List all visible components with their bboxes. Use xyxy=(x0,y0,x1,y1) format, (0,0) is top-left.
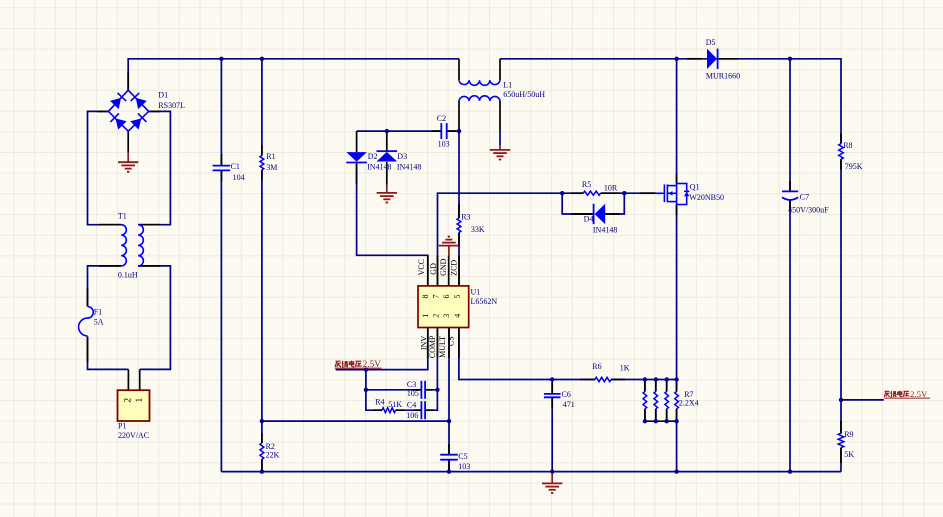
pin T1 bottom left xyxy=(99,265,121,267)
pin C2 right xyxy=(447,130,456,132)
svg-text:IN4148: IN4148 xyxy=(367,162,391,171)
junction at (437.4,389.8) xyxy=(435,388,439,392)
svg-text:C4: C4 xyxy=(407,400,416,409)
diode D5 xyxy=(707,49,717,69)
svg-text:3: 3 xyxy=(442,314,451,318)
svg-text:C5: C5 xyxy=(458,452,467,461)
bridge rectifier D1 diode element xyxy=(130,119,141,130)
svg-text:C7: C7 xyxy=(800,193,809,202)
svg-text:U1: U1 xyxy=(471,287,481,296)
junction at (459,131.1) xyxy=(457,129,461,133)
inductor L1 primary winding xyxy=(459,80,500,85)
svg-text:C2: C2 xyxy=(437,114,446,123)
junction at (841,399.9) xyxy=(839,398,843,402)
resistor R7 element 2 xyxy=(654,391,658,408)
svg-text:COMP: COMP xyxy=(428,335,437,358)
wire Q1 source to R7 bank xyxy=(676,205,678,380)
pin R9 top xyxy=(840,421,842,434)
junction at (655.8,421.2) xyxy=(654,419,658,423)
svg-text:104: 104 xyxy=(233,173,245,182)
wire divider to MULT pin xyxy=(262,420,449,422)
svg-text:1K: 1K xyxy=(620,364,630,373)
pin R1 top xyxy=(261,145,263,156)
pin P1 pin2 xyxy=(127,369,129,390)
svg-text:CS: CS xyxy=(446,336,455,346)
svg-text:1: 1 xyxy=(421,314,430,318)
wire R4 C4 lower branch left xyxy=(366,390,382,410)
pin Q1 source xyxy=(676,205,678,216)
svg-text:R7: R7 xyxy=(684,390,693,399)
wire feedback branch down xyxy=(365,370,367,390)
pin T1 top right xyxy=(138,224,160,226)
diode D3 xyxy=(377,152,398,162)
bridge rectifier D1 diamond xyxy=(108,90,148,131)
junction at (655.8,379.5) xyxy=(654,377,658,381)
wire top rail from bridge to L1 xyxy=(128,59,459,90)
wire R7 leg 4 xyxy=(676,380,678,392)
inductor L1 secondary winding xyxy=(459,96,500,101)
svg-text:C1: C1 xyxy=(231,162,240,171)
pin R5 right xyxy=(601,192,620,194)
pin U1 COMP xyxy=(436,328,438,359)
wire right column below R9 to bottom rail xyxy=(840,448,842,472)
wire R7 bottom rail xyxy=(645,420,677,422)
wire bridge left vertex to T1 left top xyxy=(88,111,122,224)
svg-text:R5: R5 xyxy=(582,180,591,189)
resistor R4 xyxy=(382,408,396,413)
junction at (221.4,58.8) xyxy=(219,57,223,61)
svg-text:R8: R8 xyxy=(843,141,852,150)
pin C6 bottom xyxy=(551,397,553,408)
pin D3 cathode xyxy=(386,131,388,151)
pin R7 stubs xyxy=(644,382,646,392)
resistor R5 xyxy=(583,191,600,195)
wire C6 lower to rail xyxy=(551,397,553,471)
pin D5 cathode xyxy=(719,58,738,60)
wire T1 left bottom to fuse F1 xyxy=(88,266,122,307)
resistor R7 element 3 xyxy=(665,391,669,408)
svg-text:33K: 33K xyxy=(471,225,485,234)
svg-text:R9: R9 xyxy=(844,430,853,439)
wire feedback tap to net label 2 xyxy=(841,399,884,401)
bridge rectifier D1 diode element xyxy=(116,119,127,130)
fuse F1 xyxy=(79,307,94,336)
pin R9 bottom xyxy=(840,448,842,463)
junction at (449,421.1) xyxy=(447,419,451,423)
wire R5 right to Q1 gate xyxy=(601,192,656,194)
op-amp controller U1 body xyxy=(418,286,469,328)
pin Q1 drain xyxy=(676,174,678,184)
wire C7 upper xyxy=(789,59,791,192)
svg-text:VCC: VCC xyxy=(417,259,426,275)
resistor R8 xyxy=(839,144,844,160)
junction at (790,471.6) xyxy=(788,469,792,473)
svg-text:22K: 22K xyxy=(266,451,280,460)
wire bridge right vertex to T1 right top xyxy=(138,111,170,224)
junction at (676.6,58.8) xyxy=(674,57,678,61)
pin R8 top xyxy=(840,134,842,144)
pin R7 stubs xyxy=(676,382,678,392)
ground below D3 xyxy=(386,185,388,193)
wire F1 to P1 pin 2 xyxy=(88,337,129,370)
pin R4 stubs xyxy=(374,409,383,411)
svg-text:GND: GND xyxy=(439,258,448,276)
capacitor C1 xyxy=(213,165,231,167)
svg-text:450V/300uF: 450V/300uF xyxy=(788,205,829,214)
resistor R7 element 1 xyxy=(643,391,647,408)
wire C1 branch upper xyxy=(220,59,222,166)
wire R7 leg xyxy=(666,380,668,392)
svg-text:D1: D1 xyxy=(158,91,168,100)
wire Q1 drain to top rail xyxy=(676,59,678,184)
svg-text:D5: D5 xyxy=(706,38,716,47)
wire D2 D3 to C2 xyxy=(357,130,442,132)
wire D4 left branch xyxy=(562,193,593,214)
pin F1 bottom xyxy=(87,337,89,363)
svg-text:795K: 795K xyxy=(845,162,863,171)
wire C3 left xyxy=(366,389,422,391)
pin R2 bottom xyxy=(261,459,263,470)
svg-text:106: 106 xyxy=(406,411,418,420)
wire R2 bottom to rail xyxy=(261,459,263,471)
svg-text:220V/AC: 220V/AC xyxy=(118,431,149,440)
junction at (365.9,369.6) xyxy=(364,367,368,371)
svg-text:MUR1660: MUR1660 xyxy=(706,72,740,81)
wire T1 right bottom to P1 pin 1 xyxy=(138,266,170,370)
svg-text:1: 1 xyxy=(135,397,145,402)
resistor R7 element 4 xyxy=(675,391,679,408)
wire C6 node to R6 xyxy=(552,379,595,381)
svg-text:R1: R1 xyxy=(266,152,275,161)
net label feedback 2.5V right xyxy=(884,389,930,399)
pin L1 secondary ends xyxy=(458,101,460,131)
junction at (261.9,471.6) xyxy=(260,469,264,473)
wire CS pin to C6 node xyxy=(459,328,552,380)
pin T1 top left xyxy=(99,224,121,226)
pin C3 stubs xyxy=(414,389,422,391)
pin bridge bottom xyxy=(127,131,129,152)
wire ZCD column upper to R3 xyxy=(458,131,460,218)
svg-text:D4: D4 xyxy=(584,215,594,224)
wire GD pin to R5 xyxy=(438,193,563,286)
junction at (261.9,421.1) xyxy=(260,419,264,423)
wire D2 cathode to VCC pin xyxy=(357,164,428,286)
junction at (365.9,389.8) xyxy=(364,388,368,392)
wire C5 lower xyxy=(448,460,450,472)
wire R1 bottom to R2 top xyxy=(261,170,263,443)
pin T1 bottom right xyxy=(138,265,160,267)
wire C6 upper xyxy=(551,380,553,394)
svg-text:R4: R4 xyxy=(375,398,384,407)
svg-text:IN4148: IN4148 xyxy=(397,162,421,171)
bridge rectifier D1 diode element xyxy=(110,98,121,109)
pin R8 bottom xyxy=(840,159,842,169)
wire R7 leg xyxy=(644,380,646,392)
pin C7 top xyxy=(789,181,791,191)
wire R3 to ZCD pin xyxy=(458,233,460,286)
svg-text:2: 2 xyxy=(123,398,133,403)
wire C4 right up to COMP node xyxy=(425,390,437,410)
svg-text:5A: 5A xyxy=(94,318,104,327)
pin R7 stubs xyxy=(655,382,657,392)
ground below bridge xyxy=(127,153,129,163)
pin U1 MULT xyxy=(448,328,450,359)
svg-text:IN4148: IN4148 xyxy=(593,226,617,235)
wire L1 secondary right to ground xyxy=(499,131,501,146)
junction at (624.3,193.2) xyxy=(622,191,626,195)
junction at (676.6,471.6) xyxy=(674,469,678,473)
pin R3 bottom xyxy=(458,233,460,248)
ground below bottom rail at C6 column xyxy=(551,472,553,484)
junction at (552.2,471.6) xyxy=(550,469,554,473)
capacitor C7 polarized xyxy=(782,190,798,192)
svg-text:7: 7 xyxy=(432,295,441,299)
svg-text:C6: C6 xyxy=(562,390,571,399)
junction at (676.6,421.2) xyxy=(674,419,678,423)
svg-text:6: 6 xyxy=(442,295,451,299)
pin D2 cathode xyxy=(356,164,358,185)
pin C5 bottom xyxy=(448,460,450,470)
pin R5 left xyxy=(571,192,583,194)
connector P1 body xyxy=(118,390,150,421)
svg-text:R2: R2 xyxy=(266,442,275,451)
pin bridge right xyxy=(149,110,161,112)
wire C2 to ZCD column xyxy=(447,130,459,132)
resistor R3 xyxy=(457,218,461,233)
svg-text:R6: R6 xyxy=(592,362,601,371)
svg-text:RS307L: RS307L xyxy=(158,101,185,110)
svg-text:471: 471 xyxy=(563,400,575,409)
svg-text:R3: R3 xyxy=(461,213,470,222)
wire D4 right branch xyxy=(605,193,624,214)
pin C2 left xyxy=(432,130,441,132)
pin C1 bottom xyxy=(220,170,222,181)
capacitor C6 xyxy=(544,393,561,395)
svg-text:2.5V: 2.5V xyxy=(363,360,382,370)
svg-text:8: 8 xyxy=(421,295,430,299)
svg-text:P1: P1 xyxy=(118,421,126,430)
transformer T1 left winding xyxy=(121,225,126,266)
pin D5 anode xyxy=(687,58,702,60)
wire R7 column to bottom rail xyxy=(676,421,678,471)
diode D2 xyxy=(346,152,367,162)
wire MULT pin down to divider xyxy=(448,328,450,422)
wire C5 upper xyxy=(448,421,450,455)
wire bottom rail xyxy=(221,471,841,473)
svg-text:Q1: Q1 xyxy=(690,182,700,191)
svg-text:D3: D3 xyxy=(397,152,407,161)
junction at (449,471.6) xyxy=(447,469,451,473)
junction at (552.2,379.5) xyxy=(550,377,554,381)
wire R5 left node xyxy=(562,192,583,194)
svg-text:0.1uH: 0.1uH xyxy=(118,271,138,280)
junction at (666.7,421.2) xyxy=(665,419,669,423)
net label feedback 2.5V left xyxy=(335,361,341,367)
pin U1 GND xyxy=(448,256,450,286)
capacitor C3 xyxy=(420,381,422,399)
svg-text:D2: D2 xyxy=(368,152,378,161)
svg-text:4: 4 xyxy=(453,314,462,318)
transistor Q1 MOSFET xyxy=(656,192,665,194)
pin bridge left xyxy=(97,110,108,112)
capacitor C4 xyxy=(420,401,422,419)
svg-text:103: 103 xyxy=(438,139,450,148)
wire right column R8 to feedback tap xyxy=(840,159,842,433)
pin R2 top xyxy=(261,433,263,443)
pin R6 left xyxy=(580,379,595,381)
svg-text:W20NB50: W20NB50 xyxy=(689,193,724,202)
junction at (562.2,193.2) xyxy=(560,191,564,195)
ground above U1 GND pin inverted xyxy=(448,246,450,256)
junction at (261.9,58.8) xyxy=(260,57,264,61)
pin C4 stubs xyxy=(414,409,422,411)
junction at (644.9,421.2) xyxy=(643,419,647,423)
pin L1 primary risers xyxy=(458,59,460,80)
wire C7 lower to rail xyxy=(789,200,791,472)
ground below L1 secondary xyxy=(499,146,501,150)
wire R1 top xyxy=(261,59,263,156)
svg-text:51K: 51K xyxy=(388,400,402,409)
junction at (644.9,379.5) xyxy=(643,377,647,381)
svg-text:650uH/50uH: 650uH/50uH xyxy=(503,90,545,99)
pin R7 stubs xyxy=(666,382,668,392)
diode D4 xyxy=(595,204,606,224)
svg-text:5K: 5K xyxy=(844,450,854,459)
svg-text:GD: GD xyxy=(429,263,438,275)
pin U1 VCC xyxy=(427,255,429,286)
pin D4 anode xyxy=(571,213,594,215)
resistor R9 xyxy=(838,433,844,447)
pin P1 pin1 xyxy=(139,369,141,390)
svg-text:L6562N: L6562N xyxy=(471,297,498,306)
pin D4 cathode xyxy=(605,213,620,215)
svg-text:105: 105 xyxy=(407,389,419,398)
transformer T1 right winding xyxy=(138,225,143,266)
pin C1 top xyxy=(220,154,222,166)
pin C6 top xyxy=(551,383,553,394)
pin bridge top xyxy=(127,72,129,90)
svg-text:ZCD: ZCD xyxy=(450,260,459,276)
svg-text:10R: 10R xyxy=(604,183,618,192)
pin F1 top xyxy=(87,288,89,307)
wire C1 branch lower to bottom rail xyxy=(220,170,222,471)
svg-text:5: 5 xyxy=(453,295,462,299)
wire INV pin to net label 1 xyxy=(336,328,428,370)
bridge rectifier D1 diode element xyxy=(136,98,147,109)
pin R3 top xyxy=(458,204,460,219)
wire R4 to C4 xyxy=(396,409,422,411)
pin D3 anode xyxy=(386,162,388,185)
svg-text:3M: 3M xyxy=(266,163,277,172)
resistor R1 xyxy=(260,156,264,171)
svg-text:103: 103 xyxy=(458,462,470,471)
wire C3 right to COMP pin xyxy=(425,328,437,390)
pin D2 anode xyxy=(356,131,358,152)
pin C7 bottom xyxy=(789,200,791,211)
capacitor C2 xyxy=(440,123,442,139)
svg-text:L1: L1 xyxy=(503,81,512,90)
svg-text:T1: T1 xyxy=(118,212,127,221)
pin U1 GD xyxy=(437,256,439,286)
pin R6 right xyxy=(611,379,625,381)
wire R6 to R7 top rail xyxy=(611,379,677,381)
pin C5 top xyxy=(448,444,450,455)
svg-text:INV: INV xyxy=(419,336,428,350)
pin Q1 gate lead xyxy=(640,192,656,194)
resistor R2 xyxy=(260,443,264,459)
svg-text:F1: F1 xyxy=(94,308,102,317)
junction at (790,58.8) xyxy=(788,57,792,61)
junction at (386.8,131.1) xyxy=(385,129,389,133)
junction at (666.7,379.5) xyxy=(665,377,669,381)
resistor R6 xyxy=(595,377,611,381)
pin R1 bottom xyxy=(261,170,263,181)
capacitor C5 xyxy=(440,454,458,456)
svg-text:2.2X4: 2.2X4 xyxy=(679,399,699,408)
svg-text:2: 2 xyxy=(431,314,440,318)
wire R7 leg xyxy=(655,380,657,392)
junction at (676.6,379.5) xyxy=(674,377,678,381)
pin U1 CS xyxy=(458,328,460,359)
svg-text:C3: C3 xyxy=(407,380,416,389)
pin U1 ZCD xyxy=(458,256,460,286)
wire top rail from L1 to D5 and right edge down to R8 xyxy=(500,59,841,144)
pin U1 INV xyxy=(427,328,429,359)
